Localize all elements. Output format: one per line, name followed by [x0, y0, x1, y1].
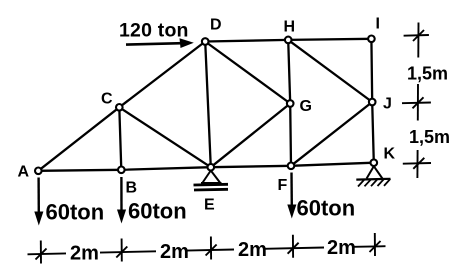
node G [287, 100, 294, 107]
node H [285, 37, 292, 44]
svg-text:60ton: 60ton [297, 196, 356, 221]
svg-text:60ton: 60ton [128, 199, 187, 224]
svg-text:120 ton: 120 ton [119, 20, 189, 42]
member B-C [119, 107, 121, 170]
svg-text:B: B [126, 180, 138, 197]
dimension tick at A [36, 241, 47, 264]
load 120 ton at D (arrow) [126, 38, 194, 48]
member D-G [205, 42, 290, 104]
node J [369, 99, 376, 106]
member A-C [38, 107, 119, 171]
dimension tick at K level [403, 158, 431, 169]
svg-text:D: D [210, 16, 222, 33]
dimension tick at J level [402, 97, 431, 108]
svg-text:E: E [204, 197, 215, 214]
svg-text:C: C [101, 91, 113, 108]
support E (pinned on rollers) [194, 171, 229, 191]
member I-J [370, 39, 373, 102]
node F [288, 163, 295, 170]
member J-K [372, 102, 374, 163]
member E-F [211, 166, 291, 167]
member D-H [205, 40, 288, 42]
member F-K [291, 163, 374, 166]
dimension tick at B [116, 239, 127, 262]
member D-E [205, 42, 211, 168]
node I [368, 36, 375, 43]
member C-D [119, 42, 205, 108]
node D [202, 38, 209, 45]
load 60 ton at B (arrow) [117, 177, 126, 224]
svg-text:2m: 2m [327, 237, 356, 259]
svg-text:I: I [376, 16, 380, 33]
svg-text:2m: 2m [70, 243, 99, 265]
member A-B [38, 170, 121, 171]
node C [116, 104, 123, 111]
member C-E [119, 107, 211, 167]
svg-text:A: A [18, 164, 30, 181]
right vertical dimension line segments [417, 23, 418, 179]
svg-text:K: K [384, 146, 396, 163]
bottom dimension line segments [28, 246, 386, 254]
node E [208, 164, 215, 171]
node B [118, 167, 125, 174]
dimension tick at F [288, 235, 299, 258]
member B-E [121, 167, 211, 170]
load 60 ton at F (arrow) [287, 173, 296, 219]
svg-text:F: F [278, 177, 288, 194]
node A [35, 168, 42, 175]
dimension tick at E [206, 237, 217, 260]
svg-text:2m: 2m [160, 241, 189, 263]
load 60 ton at A (arrow) [34, 178, 43, 226]
member F-G [289, 104, 292, 166]
svg-text:2m: 2m [238, 239, 267, 261]
member F-J [291, 102, 372, 166]
dimension tick at K [370, 233, 381, 256]
dimension tick at I level [404, 30, 429, 41]
svg-text:J: J [383, 96, 392, 113]
node K [371, 159, 378, 166]
svg-text:G: G [300, 98, 312, 115]
member G-H [288, 40, 290, 104]
svg-text:H: H [284, 19, 296, 36]
svg-text:1,5m: 1,5m [407, 64, 448, 84]
member H-I [288, 39, 371, 40]
member H-J [288, 40, 372, 102]
svg-text:60ton: 60ton [46, 200, 105, 225]
svg-text:1,5m: 1,5m [409, 127, 450, 147]
member E-G [211, 104, 290, 168]
support K (pinned with hatched ground) [356, 166, 390, 186]
